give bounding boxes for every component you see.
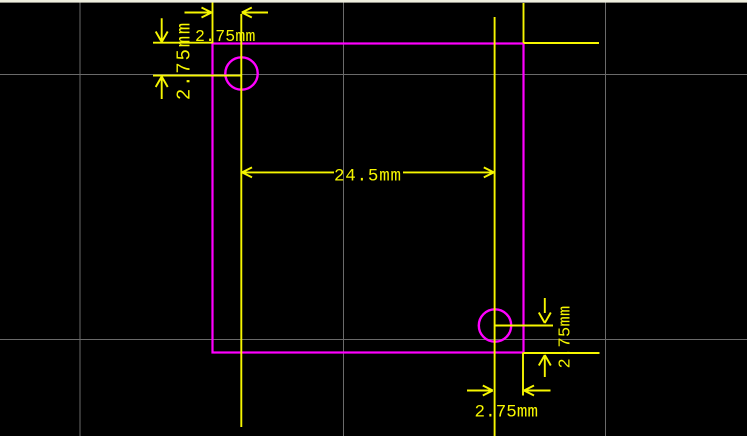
bottom dimension line left segment with right-pointing arrow (467, 386, 493, 396)
mounting hole bottom-right (479, 309, 511, 341)
extension through right hole center to the right (495, 325, 553, 327)
left dimension up arrow (156, 77, 168, 100)
svg-text:2.75mm: 2.75mm (475, 403, 539, 423)
extension line above top-left board corner (212, 3, 214, 44)
extension line above top-right board corner (523, 3, 525, 43)
dimension annotations (yellow) (153, 3, 600, 436)
top dimension line left segment with right-pointing arrow (185, 8, 212, 18)
extension through left hole center to the left (153, 75, 241, 77)
extension of board top edge to the left (153, 42, 213, 44)
vertical line through right hole center (494, 17, 496, 436)
svg-text:24.5mm: 24.5mm (334, 167, 402, 187)
bottom dimension line right segment with left-pointing arrow (524, 386, 551, 396)
top dimension line right segment with left-pointing arrow (242, 8, 268, 18)
left dimension down arrow (156, 18, 168, 42)
extension of board bottom edge to the right (524, 352, 600, 354)
window top edge bar (0, 0, 747, 3)
24.5mm dimension line right segment with right-pointing arrow (403, 167, 494, 177)
right dimension down arrow (539, 298, 551, 323)
svg-text:2.75mm: 2.75mm (174, 21, 196, 100)
board outline rectangle (Edge.Cuts) (213, 44, 524, 353)
right dimension up arrow (539, 355, 551, 377)
mounting hole top-left (225, 57, 257, 89)
svg-text:2.75mm: 2.75mm (195, 27, 256, 46)
24.5mm dimension line left segment with left-pointing arrow (242, 167, 334, 177)
svg-text:2.75mm: 2.75mm (557, 305, 576, 368)
vertical line through left hole center (240, 14, 242, 427)
extension of board top edge to the right (524, 42, 600, 44)
extension line below bottom-right board corner (522, 353, 524, 396)
